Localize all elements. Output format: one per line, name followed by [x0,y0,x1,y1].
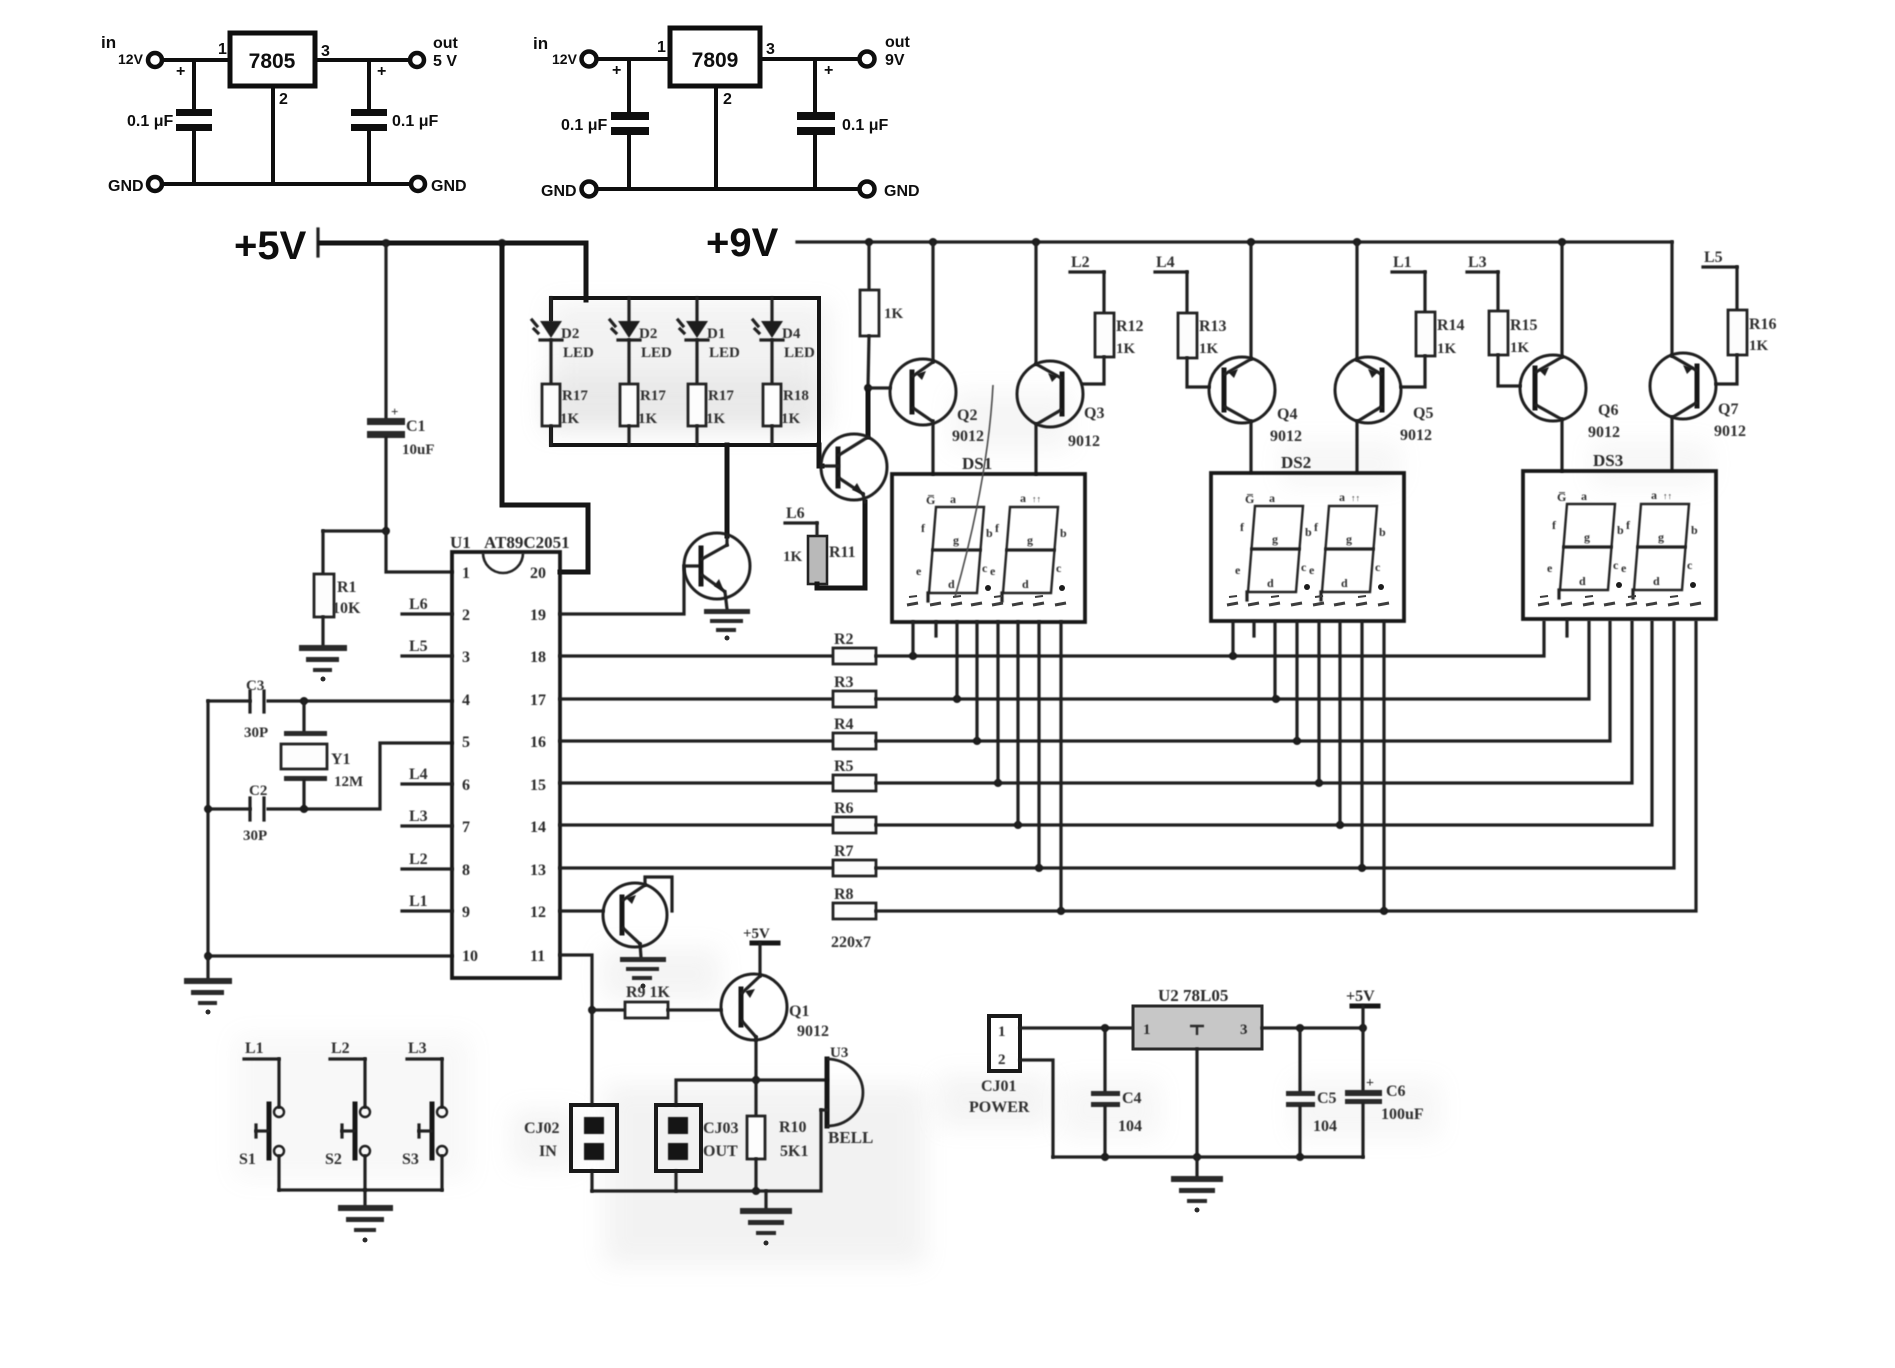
svg-text:R9 1K: R9 1K [626,984,671,1001]
svg-text:C5: C5 [1317,1090,1337,1107]
svg-text:d: d [1022,577,1029,591]
wire display pin 2 drop [1252,622,1255,636]
capacitor C5 [1286,1028,1315,1157]
wire R2 row [876,622,1544,656]
svg-text:C6: C6 [1386,1083,1406,1100]
svg-text:220x7: 220x7 [831,934,871,951]
wire display pin 1 drop [911,622,914,656]
wire U1 to R4 [560,739,833,742]
svg-text:Q7: Q7 [1718,401,1738,418]
wire D4 to R18 [770,340,773,384]
junction R3 row x1276 [1272,695,1280,703]
svg-text:R6: R6 [834,800,854,817]
junction R3 row x957 [953,695,961,703]
resistor R1 [314,574,334,617]
svg-text:L2: L2 [1071,254,1090,271]
wire Q6 collector to DS3 [1560,419,1563,471]
wire display pin 7 drop [1360,622,1363,868]
wire Q1 collector down [754,1040,757,1080]
svg-text:12: 12 [530,904,546,921]
wire node to CJ02 [590,1010,593,1105]
svg-text:OUT: OUT [703,1143,738,1160]
svg-text:L4: L4 [409,766,428,783]
wire U-7805 pin3 to output [315,58,410,62]
junction C4 top [1101,1024,1109,1032]
svg-text:L3: L3 [408,1040,427,1057]
regulator subcircuit 7805 [101,33,467,195]
svg-text:D4: D4 [782,326,801,342]
svg-text:S3: S3 [402,1151,419,1168]
switch S2 [342,1104,370,1158]
transistor T1 (LED driver) [684,533,750,609]
net stub L5 (U1 pin 3) [402,654,452,657]
wire +5V rail [320,243,586,300]
wire bell feed [676,1080,827,1105]
net stub L6 [785,523,817,536]
wire +9V to 1K [867,242,870,290]
wire display pin 2 drop [934,622,937,636]
ground (R1) [299,645,347,682]
svg-text:a: a [1020,491,1026,505]
wire left ground rail [206,701,209,958]
LED D2 [532,298,562,340]
svg-text:g: g [1272,532,1278,546]
svg-text:L4: L4 [1156,254,1175,271]
pin mark (U2) [1190,1026,1204,1035]
ground (power section) [1171,1157,1223,1213]
svg-text:5K1: 5K1 [780,1143,808,1160]
DS2 digit 2 [1321,506,1377,600]
display DS2 body [1211,473,1404,621]
svg-text:1K: 1K [706,411,726,427]
wire R17 to box bottom [627,426,630,445]
svg-text:out: out [433,35,459,52]
wire R11 to Q8 emitter [817,502,865,588]
svg-text:17: 17 [530,692,546,709]
wire +9V to Q5 [1355,242,1358,360]
wire U2 pin3 to +5V [1262,1026,1363,1029]
svg-text:U1: U1 [450,533,471,552]
wire XTAL1 line (U1 pin4) [208,699,452,702]
transistor T2 (R8 driver) [603,883,667,957]
svg-text:a: a [1581,489,1587,503]
IC U1 notch [483,553,523,573]
junction C5 bottom [1296,1153,1304,1161]
terminal 9V output [860,52,875,67]
wire R14 to Q5 base [1401,356,1425,387]
svg-text:g: g [1658,530,1664,544]
svg-text:LED: LED [563,345,594,361]
svg-text:1: 1 [998,1024,1006,1040]
svg-text:d: d [948,577,955,591]
svg-text:1: 1 [462,565,470,582]
junction R4 row x977 [973,737,981,745]
wire node to Q8 [866,388,871,437]
wire display pin 6 drop [1016,622,1019,825]
DS2 digit 1 labels [1235,491,1312,590]
svg-text:d: d [1579,574,1586,588]
svg-text:1: 1 [1143,1022,1151,1038]
svg-text:D2: D2 [561,326,579,342]
regulator subcircuit 7809 [533,28,920,200]
capacitor C1 [367,243,405,531]
resistor R17 [542,384,560,426]
svg-text:LED: LED [641,345,672,361]
svg-text:Q1: Q1 [789,1003,809,1020]
junction +5V at pin20 branch [498,239,506,247]
svg-text:LED: LED [709,345,740,361]
terminal GND right [411,177,425,191]
svg-text:↑↑: ↑↑ [1032,494,1041,504]
svg-text:14: 14 [530,819,546,836]
svg-text:11: 11 [530,948,545,965]
svg-text:30P: 30P [243,828,267,844]
capacitor 0.1uF output side [797,59,835,189]
svg-text:1K: 1K [638,411,658,427]
svg-text:+: + [176,63,185,80]
net +5V bar (Q1) [752,941,778,946]
svg-text:Q6: Q6 [1598,402,1618,419]
resistor R15 [1489,311,1508,355]
junction Q2 base node [864,384,872,392]
wire node to R9 [592,1008,625,1011]
svg-text:9012: 9012 [952,428,984,445]
net +5V bar (U2) [1352,1004,1378,1009]
wire R13 to Q4 base [1187,358,1209,387]
junction crystal top [300,697,308,705]
junction R5 row x998 [994,779,1002,787]
wire input to U-7805 pin1 [163,58,230,62]
DS1 digit 1 [928,507,984,601]
svg-text:↑↑: ↑↑ [1663,491,1672,501]
svg-text:1K: 1K [783,549,803,565]
wire CJ02 to ground line [590,1171,593,1191]
junction +9V at Q2 [929,238,937,246]
net stub L3 (Q6) [1467,272,1498,311]
wire U1 pin19 to T1 base [560,566,700,614]
DS3 digit 1 labels [1547,489,1624,588]
DS1 digit 2 [1002,507,1058,601]
svg-text:U3: U3 [830,1045,848,1061]
svg-text:C4: C4 [1122,1090,1142,1107]
connector CJ03 [656,1105,701,1171]
wire R8 row [876,622,1696,911]
svg-text:6: 6 [462,777,470,794]
svg-text:e: e [1309,563,1315,577]
DS3 digit 1 [1559,504,1615,598]
svg-text:2: 2 [998,1052,1006,1068]
resistor R7 [833,860,876,876]
svg-text:7809: 7809 [692,49,739,72]
svg-text:DS2: DS2 [1281,453,1311,472]
capacitor C3 [250,691,264,712]
wire +5V to Q1 [758,943,761,976]
net stub L1 (switch) [244,1059,279,1107]
svg-text:a: a [1651,488,1657,502]
junction R9 node [588,1006,596,1014]
wire R17 to box bottom [549,426,552,445]
svg-text:R10: R10 [779,1119,807,1136]
wire bell to ground line [592,1110,821,1191]
wire +9V to Q6 [1560,242,1563,357]
svg-text:c: c [1301,560,1307,574]
svg-text:R13: R13 [1199,318,1227,335]
resistor 1K (Q2 base) [860,290,879,336]
wire R15 to Q6 base [1498,355,1520,386]
svg-text:d: d [1267,576,1274,590]
wire U1 to R7 [560,866,833,869]
wire R6 row [876,622,1652,825]
svg-text:U2 78L05: U2 78L05 [1158,986,1228,1005]
svg-text:10uF: 10uF [402,442,435,458]
svg-text:R11: R11 [829,544,856,561]
junction node pin1/R1/C1 [382,527,390,535]
wire R18 to box bottom [770,426,773,445]
wire ground bus 7809 [597,187,859,191]
svg-text:GND: GND [108,178,144,195]
wire Q5 collector to DS2 [1355,421,1358,472]
wire U1 pin10 to rail [208,954,452,957]
svg-text:4: 4 [462,692,470,709]
svg-text:L2: L2 [409,851,428,868]
terminal GND left [582,182,597,197]
LED D2 [610,298,640,340]
svg-text:0.1 μF: 0.1 μF [842,117,888,134]
switch S3 [419,1104,447,1158]
junction R7 row x1362 [1358,864,1366,872]
svg-text:12V: 12V [118,51,144,67]
resistor R8 [833,903,876,919]
svg-text:LED: LED [784,345,815,361]
svg-text:R12: R12 [1116,318,1144,335]
svg-text:9V: 9V [885,52,905,69]
svg-text:0.1 μF: 0.1 μF [127,113,173,130]
terminal 5V output [410,53,424,67]
svg-text:e: e [1621,561,1627,575]
svg-text:19: 19 [530,607,546,624]
wire +5V to U1 pin20 [502,243,588,572]
svg-text:DS3: DS3 [1593,451,1623,470]
ground (crystal rail) [184,978,232,1015]
svg-text:b: b [1617,523,1624,537]
svg-text:0.1 μF: 0.1 μF [392,113,438,130]
wire U1 to R3 [560,697,833,700]
wire S3 to common [440,1156,443,1190]
svg-text:20: 20 [530,565,546,582]
wire LED box to Q8 base [819,445,822,466]
transistor Q6 [1520,355,1586,421]
svg-text:16: 16 [530,734,546,751]
regulator U2 78L05 body [1133,1006,1262,1049]
svg-text:+: + [391,404,398,419]
svg-text:CJ02: CJ02 [524,1120,560,1137]
junction R6 row x1340 [1336,821,1344,829]
svg-text:3: 3 [321,43,330,60]
svg-text:R7: R7 [834,843,854,860]
junction crystal bottom [300,805,308,813]
svg-text:GND: GND [541,183,577,200]
svg-text:G̅: G̅ [926,493,935,507]
junction R4 row x1297 [1293,737,1301,745]
net stub L2 [1070,272,1104,313]
wire U2 pin2 down [1195,1049,1198,1157]
transistor Q5 [1335,357,1401,423]
display pin name marks [1227,596,1389,605]
stray scan mark [955,385,993,597]
wire Q1 to R10 [754,1080,757,1116]
svg-text:g: g [1584,530,1590,544]
svg-text:+: + [1366,1076,1374,1091]
ground (T1 emitter) [704,609,750,641]
resistor R4 [833,733,876,749]
svg-text:CJ01: CJ01 [981,1078,1017,1095]
svg-text:DS1: DS1 [962,454,992,473]
wire CJ01 pin2 to ground line [1020,1060,1053,1157]
wire 1K to node [868,336,869,388]
capacitor 0.1uF input side [611,59,649,189]
svg-text:5: 5 [462,734,470,751]
DS3 digit 2 [1633,504,1689,598]
svg-text:+5V: +5V [1346,988,1375,1005]
svg-text:12V: 12V [552,51,578,67]
svg-text:G̅: G̅ [1557,490,1566,504]
wire R17 to box bottom [695,426,698,445]
junction +9V at Q3 [1032,238,1040,246]
svg-text:g: g [1027,533,1033,547]
net stub L2 (switch) [330,1059,365,1107]
svg-text:Y1: Y1 [331,751,351,768]
svg-text:S2: S2 [325,1151,342,1168]
wire switch common [279,1188,442,1191]
connector CJ01 [989,1016,1020,1071]
junction pin10 rail [204,952,212,960]
resistor R13 [1178,313,1197,358]
svg-text:3: 3 [1240,1022,1248,1038]
svg-text:a: a [950,492,956,506]
resistor R12 [1095,313,1114,357]
wire D2 to R17 [627,340,630,384]
svg-text:2: 2 [462,607,470,624]
resistor R5 [833,775,876,791]
net stub L4 (U1 pin 6) [402,782,452,785]
switch S1 [256,1104,284,1158]
svg-text:Q2: Q2 [957,407,977,424]
net stub L3 (switch) [407,1059,442,1107]
wire U-7809 pin3 to output [760,57,859,61]
svg-text:15: 15 [530,777,546,794]
svg-text:R8: R8 [834,886,854,903]
wire Q3 collector to DS1 [1034,424,1037,474]
wire display pin 7 drop [1037,622,1040,868]
svg-text:e: e [1235,563,1241,577]
svg-text:18: 18 [530,649,546,666]
wire display pin 4 drop [1295,622,1298,741]
wire R3 row [876,622,1589,699]
wire T2 collector to R8 row [645,877,672,911]
junction R8 row x1061 [1057,907,1065,915]
svg-text:7: 7 [462,819,470,836]
junction R8 row x1384 [1380,907,1388,915]
svg-text:9012: 9012 [797,1023,829,1040]
wire display pin 3 drop [955,622,958,699]
svg-text:e: e [1547,561,1553,575]
svg-text:R17: R17 [708,388,734,404]
wire R4 row [876,622,1610,741]
junction +9V at Q5 [1353,238,1361,246]
svg-text:b: b [1060,526,1067,540]
svg-text:13: 13 [530,862,546,879]
wire U1 to R6 [560,823,833,826]
svg-text:9012: 9012 [1588,424,1620,441]
resistor R14 [1416,312,1435,356]
DS1 digit 1 labels [916,492,993,591]
junction U2 pin2 ground [1193,1153,1201,1161]
svg-text:3: 3 [462,649,470,666]
wire node to U1 pin1 [386,531,452,572]
svg-text:e: e [916,564,922,578]
svg-text:CJ03: CJ03 [703,1120,739,1137]
svg-text:9012: 9012 [1270,428,1302,445]
wire U1 pin11 down [560,955,592,1010]
resistor R17 [688,384,706,426]
svg-text:GND: GND [431,178,467,195]
svg-text:L1: L1 [1393,254,1412,271]
resistor R17 [620,384,638,426]
capacitor 0.1uF output side [351,60,387,184]
svg-text:Q3: Q3 [1084,405,1104,422]
wire ground bus 7805 [163,182,410,186]
svg-text:POWER: POWER [969,1099,1030,1116]
svg-text:GND: GND [884,183,920,200]
svg-text:104: 104 [1313,1118,1337,1135]
display pin name marks [1538,596,1701,605]
display pin name marks [907,596,1066,605]
svg-text:2: 2 [279,91,288,108]
svg-text:9012: 9012 [1714,423,1746,440]
svg-text:c: c [1613,558,1619,572]
net stub L6 (U1 pin 2) [402,612,452,615]
svg-text:9012: 9012 [1068,433,1100,450]
svg-text:in: in [101,33,116,52]
svg-text:b: b [1379,525,1386,539]
regulator U 7805 body [230,33,315,86]
svg-text:1K: 1K [884,306,904,322]
transistor Q3 [1017,361,1083,427]
junction +5V at C1 [382,239,390,247]
wire common to ground [363,1190,366,1205]
svg-text:10K: 10K [332,600,361,617]
svg-text:L1: L1 [409,893,428,910]
ground (T2 emitter) [620,957,666,989]
wire display pin 5 drop [996,622,999,783]
resistor R16 [1728,310,1747,355]
svg-text:e: e [990,564,996,578]
wire display pin 4 drop [975,622,978,741]
regulator U 7809 body [670,28,760,86]
svg-text:b: b [1305,525,1312,539]
resistor R6 [833,817,876,833]
transistor Q4 [1209,357,1275,423]
IC U1 AT89C2051 body [452,552,560,978]
ground (switches) [338,1205,393,1243]
svg-text:8: 8 [462,862,470,879]
svg-text:L1: L1 [245,1040,264,1057]
net stub L2 (U1 pin 8) [402,867,452,870]
terminal GND left [148,177,162,191]
svg-text:C3: C3 [246,678,264,694]
svg-text:R2: R2 [834,631,854,648]
terminal 12V input [582,52,597,67]
